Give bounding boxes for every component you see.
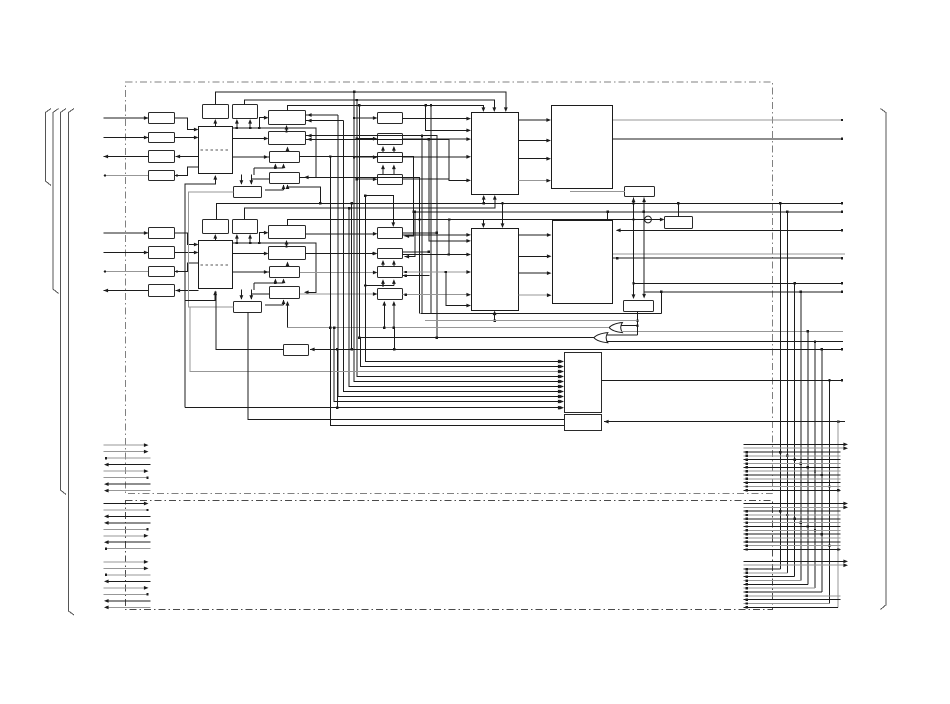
- wire UB to RB4: [176, 289, 199, 293]
- wire clock box top riser: [677, 203, 679, 217]
- OR gate G1: [609, 323, 622, 333]
- wire S B1 to M B1: [306, 232, 378, 236]
- wire SA4 bottom tap: [286, 184, 322, 204]
- wire X2 in: [604, 420, 845, 424]
- wire node SA4 feed: [252, 179, 285, 190]
- wire U7 out1: [519, 233, 552, 237]
- mid latch box: [284, 345, 309, 356]
- wire into MA1: [353, 116, 378, 120]
- wire U3 out4: [519, 179, 552, 183]
- clock buffer box: [665, 217, 693, 229]
- mux MB4: [378, 289, 403, 300]
- wire riser U3 bottom a: [482, 195, 486, 203]
- wire SA1-SA2 stub: [285, 125, 289, 133]
- bus line v337: [336, 348, 338, 409]
- wire Y1 right: [652, 218, 665, 222]
- buffer RA2: [149, 133, 175, 143]
- wire UA to SA2: [233, 137, 269, 141]
- wire S A4 right link: [300, 178, 420, 314]
- output wire OUTB4: [104, 289, 149, 293]
- wire Y1 left: [418, 218, 644, 220]
- wire into MA4: [356, 177, 378, 181]
- wire RB2 to UB: [175, 251, 199, 255]
- bus line vR4: [800, 292, 802, 581]
- wire M B3 bottom feed: [364, 279, 396, 286]
- connector pin group L2: [104, 502, 151, 550]
- wire M A3 bottom stubs: [381, 165, 396, 175]
- wire UA right bus: [233, 116, 316, 179]
- wire riser x394: [393, 328, 395, 350]
- wire branch into U3 pin: [426, 105, 471, 132]
- wire M A2 to U3: [403, 137, 472, 141]
- wire M B3 aux out: [403, 275, 430, 277]
- wire branch y195.7: [364, 195, 395, 228]
- wire U4 out2 bus: [613, 138, 843, 140]
- wire riser DB b: [642, 198, 646, 292]
- left group bracket 4: [69, 109, 75, 616]
- wire M B4 to U7: [403, 293, 472, 297]
- wire vert x428.9: [428, 138, 471, 243]
- wire U8 out2 bus: [613, 257, 844, 259]
- mux MB2: [378, 249, 403, 259]
- bus line vA7: [358, 105, 360, 338]
- latch SA4: [270, 173, 300, 184]
- wire M A3 to U3: [403, 155, 472, 159]
- wire A-box A top bus y92: [215, 91, 507, 112]
- wire M A2 bottom stubs: [381, 146, 396, 152]
- wire UB to SB3: [233, 270, 270, 274]
- mux MA4: [378, 175, 403, 185]
- buffer RA3: [149, 151, 175, 163]
- wire S B3 to M B3: [300, 271, 378, 275]
- right group bracket: [881, 109, 886, 610]
- buffer RA4: [149, 171, 175, 181]
- bus line vR9: [837, 422, 839, 608]
- IC U4: [552, 106, 613, 189]
- mux MA1: [378, 113, 403, 124]
- wire node SA3 feed: [254, 164, 285, 176]
- config box CA: [234, 187, 262, 198]
- wire M B2 right out: [403, 251, 431, 253]
- wire vert x431: [430, 104, 432, 314]
- wire bus La y203.4: [216, 202, 843, 219]
- wire U7 out4: [519, 293, 552, 297]
- bus line vR5: [807, 331, 809, 584]
- wire RA2 to UA: [175, 136, 199, 140]
- wire CA left gray: [188, 191, 234, 193]
- dash-dot boundary frame upper: [126, 82, 773, 494]
- wire U3 out3: [519, 157, 552, 161]
- wire UA to SA3: [233, 155, 270, 159]
- wire M B2 right in: [405, 211, 417, 259]
- connector pin group L3: [104, 560, 151, 609]
- wire M A1 to U3: [403, 117, 472, 121]
- wire M B2 to U7: [403, 220, 472, 257]
- mux MA2: [378, 134, 403, 145]
- wire S A2 right link a: [306, 134, 439, 339]
- wire riser U8 top: [606, 211, 608, 221]
- wire gray vertical x188: [188, 192, 190, 307]
- latch SB1: [269, 226, 306, 239]
- OR gate G2: [594, 333, 608, 343]
- wire CA top arrows: [240, 175, 254, 185]
- register box BA: [233, 105, 258, 119]
- buffer RA1: [149, 113, 175, 124]
- wire S A2 right link b: [306, 138, 450, 142]
- wire RA4 to UA: [175, 167, 199, 177]
- interface box X2: [565, 415, 602, 431]
- wire UB to SB2: [233, 252, 269, 256]
- wire M B1 right out: [403, 232, 439, 234]
- wire SA2-SA3 stub: [286, 147, 290, 152]
- wire SB2-SB3 stub: [286, 262, 290, 267]
- wire gray x189 to X1: [190, 307, 563, 373]
- bus line vA4: [351, 203, 353, 350]
- wire into MA2: [356, 137, 378, 141]
- wire bus H8 y283.3: [632, 282, 843, 284]
- wire S A1 right link b: [306, 119, 344, 123]
- bus line vR6: [814, 342, 816, 589]
- mux MA3: [378, 153, 403, 163]
- connector pin group R2: [744, 502, 849, 551]
- wire U7 bottom feed: [493, 311, 497, 322]
- register box AB: [203, 220, 229, 234]
- wire M B2 bottom stubs: [381, 260, 396, 267]
- input wire INA2: [104, 136, 149, 140]
- bus line vR2: [786, 212, 788, 573]
- latch SA2: [269, 132, 306, 145]
- connector pin group R1: [744, 443, 849, 492]
- wire U4 out1 bus: [613, 119, 843, 121]
- bus line vA5: [354, 92, 562, 384]
- IC U3: [472, 113, 519, 195]
- latch SB2: [269, 247, 306, 260]
- wire bus Lb y208.1: [244, 195, 496, 219]
- input wire INB1: [104, 231, 149, 235]
- bus line vA8: [365, 196, 562, 364]
- wire G2 output H16: [361, 338, 594, 369]
- wire M B1 to U7: [403, 233, 472, 237]
- wire G2 in1: [607, 334, 638, 336]
- wire bus Lc y211.9: [412, 211, 843, 213]
- wire U7 out2: [519, 254, 552, 258]
- buffer RB4: [149, 285, 175, 297]
- wire vert x422: [421, 134, 423, 313]
- wire RA1 to UA: [175, 118, 199, 131]
- wire into MA3: [353, 155, 378, 159]
- wire UB right bus: [233, 231, 316, 294]
- wire UA to AA: [213, 119, 217, 126]
- bus line vR3: [793, 283, 795, 576]
- input wire INB2: [104, 251, 149, 255]
- wire node SB3 feed: [254, 279, 285, 291]
- wire G1 in1: [621, 325, 639, 327]
- latch SA1: [269, 111, 306, 125]
- output wire OUTA3: [104, 155, 149, 159]
- wire bus y219.4: [288, 219, 486, 228]
- buffer RB2: [149, 247, 175, 259]
- IC UB: [199, 241, 233, 289]
- output wire OUTB3: [104, 270, 149, 272]
- output wire OUTA4: [104, 174, 149, 176]
- wire UA to RA3: [176, 155, 199, 159]
- wire riser DB a: [632, 198, 636, 300]
- wire CBB bottom riser: [248, 312, 565, 420]
- bus line vA6: [357, 100, 563, 378]
- bus line vA3: [349, 208, 562, 388]
- wire node SB4 feed: [252, 294, 285, 305]
- wire gray y320.6: [425, 320, 638, 322]
- config box CB: [234, 302, 262, 313]
- wire G1 in2 bus: [621, 330, 843, 332]
- wire x330 to X2: [329, 155, 564, 425]
- bus line vR7: [821, 349, 823, 592]
- wire B-box A top bus y100: [245, 99, 497, 112]
- bus line vR8: [828, 380, 830, 603]
- input wire INA1: [104, 116, 149, 120]
- wire CB left gray: [188, 306, 234, 308]
- wire CB top arrows: [240, 290, 254, 300]
- bus line vR1: [779, 203, 781, 569]
- bus line vA2: [343, 121, 562, 394]
- latch SB3: [270, 267, 300, 278]
- wire SB1-SB2 stub: [285, 240, 289, 248]
- wire x184 to X1 row: [185, 406, 563, 410]
- left group bracket 3: [61, 109, 67, 495]
- wire U7 in5: [445, 271, 471, 308]
- wire DB bottom riser: [636, 312, 638, 336]
- register box BB: [233, 220, 258, 234]
- connector pin group R3: [744, 560, 849, 609]
- wire gray DA: [570, 191, 625, 193]
- wire M A4 to U3: [403, 139, 472, 182]
- IC U7: [472, 229, 519, 311]
- wire X1 out: [602, 379, 844, 381]
- wire under U7 y313.7: [421, 313, 662, 315]
- wire H17 y349.4: [310, 348, 843, 352]
- clock oscillator Y1: [644, 216, 652, 223]
- latch SB4: [270, 287, 300, 299]
- bus line v334: [333, 326, 563, 403]
- register box AA: [203, 105, 229, 119]
- wire riser U7 top: [501, 203, 505, 228]
- latch SA3: [270, 152, 300, 163]
- bus line vA1: [338, 115, 563, 398]
- wire S A1 right link a: [306, 113, 339, 117]
- IC UA: [199, 127, 233, 174]
- wire U8 in right: [616, 228, 843, 232]
- wire RB3 to UB: [175, 263, 199, 273]
- wire U7 out3: [519, 271, 552, 275]
- wire S B2 to M B2: [306, 252, 378, 256]
- left group bracket 1: [46, 109, 52, 186]
- wire UA bottom chain: [185, 175, 217, 408]
- wire S A3 right link: [300, 157, 414, 239]
- wire gray bus y254: [613, 253, 845, 255]
- wire bus y105.4: [288, 104, 486, 112]
- buffer RB3: [149, 267, 175, 277]
- IC U8: [553, 221, 613, 304]
- wire M B3 to U7: [403, 270, 472, 274]
- wire bus H9 y291.9: [642, 291, 843, 314]
- wire RB1 to UB: [175, 233, 199, 246]
- wire UB to AB: [213, 234, 217, 241]
- wire G2 in2 bus: [607, 340, 844, 342]
- decoder D A: [625, 187, 655, 197]
- connector pin group L1: [104, 443, 151, 492]
- mux MB1: [378, 228, 403, 239]
- dash-dot boundary frame lower: [126, 501, 773, 610]
- left group bracket 2: [53, 109, 59, 294]
- interface box X1: [559, 353, 601, 413]
- wire S B4 to M B4: [300, 292, 378, 296]
- wire G1 output H15: [286, 301, 609, 329]
- wire U3 out1: [519, 118, 552, 122]
- decoder D B: [624, 301, 654, 312]
- buffer RB1: [149, 228, 175, 239]
- mux MB3: [378, 267, 403, 278]
- wire U3 out2: [519, 139, 552, 143]
- wire U B bottom to mid latch: [216, 292, 283, 350]
